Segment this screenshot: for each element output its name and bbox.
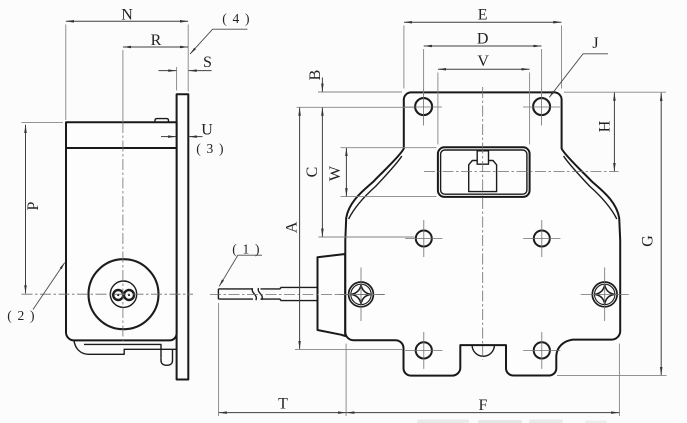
dimension F [618,344,620,417]
hole top-left [405,89,442,126]
dimension D [423,49,425,97]
connector horizontal axis [424,171,619,173]
scan smudge artifacts at bottom edge [417,420,607,423]
screw left [337,268,385,322]
motor body (left view) [66,122,177,340]
dimension E [403,26,405,89]
connector pin right (left view) [124,290,134,300]
vertical centerline (left view) [122,50,124,122]
svg-text:T: T [278,396,288,413]
connector socket outer [438,147,530,197]
bracket edge line under body left [295,348,402,350]
leader (4) [190,29,247,54]
hole bottom-left [405,332,442,369]
dimension B [318,91,402,93]
dimension G [557,374,667,376]
dimension U [161,136,176,138]
svg-text:A: A [284,221,301,233]
flange plate (left view) [177,94,189,379]
connector socket inner [441,150,527,194]
svg-text:G: G [640,235,657,247]
center vertical axis (front view) [482,87,484,360]
svg-text:W: W [327,165,344,181]
side block (shaft mount) [318,254,346,336]
svg-text:V: V [477,53,489,70]
hole mid-right [523,220,560,257]
screw right [581,268,629,322]
connector circle middle (left view) [110,281,136,307]
dimension N [65,25,67,121]
svg-text:E: E [478,7,488,24]
hole top-right [523,89,560,126]
bottom center semicircle [472,345,494,356]
svg-text:B: B [307,70,324,81]
connector circle outer (left view) [89,259,159,329]
svg-text:U: U [201,122,213,139]
connector plug block [469,161,497,192]
inner flare edge left [349,156,402,219]
svg-text:F: F [479,397,488,414]
hole bottom-right [523,332,560,369]
dimension W [341,147,437,149]
svg-text:( 1 ): ( 1 ) [232,242,261,257]
leader (2) [33,263,65,310]
svg-text:D: D [477,31,489,48]
dimension V [437,73,439,145]
svg-text:S: S [203,54,212,71]
dimension T [218,303,220,416]
dimension H [564,91,666,93]
svg-text:R: R [151,32,162,49]
svg-text:( 3 ): ( 3 ) [196,141,225,156]
connector key tab [477,151,488,164]
inner flare edge right [564,156,617,219]
dimension R [123,46,188,48]
leader (1) [219,255,262,286]
terminal bump on body top (left view) [155,119,169,123]
svg-text:P: P [25,201,42,210]
horizontal centerline (left view) [22,293,194,295]
svg-text:N: N [121,6,133,23]
svg-text:C: C [304,167,321,178]
dimension P [22,121,64,123]
svg-text:( 2 ): ( 2 ) [7,308,36,323]
dimension C [319,236,415,238]
dimension A [299,108,301,349]
svg-text:H: H [597,120,614,132]
leader J [549,54,608,98]
hole mid-left [405,220,442,257]
shaft axis [210,294,384,296]
body seam line (left view) [66,147,177,149]
output shaft (1) [218,287,318,300]
dimension S [176,67,178,91]
shaft break symbol [252,288,256,300]
main body outline (front view) [345,92,620,375]
mounting foot bracket under body (left view) [74,341,176,366]
svg-text:( 4 ): ( 4 ) [222,11,251,26]
svg-text:J: J [592,35,598,52]
connector pin left (left view) [113,290,123,300]
